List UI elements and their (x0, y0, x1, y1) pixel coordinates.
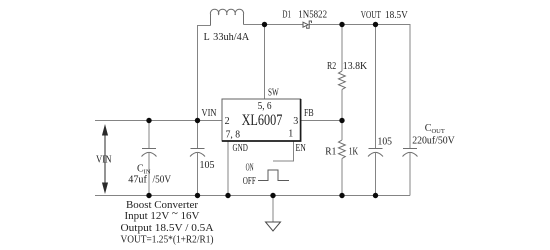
svg-text:1: 1 (288, 129, 293, 140)
svg-text:105: 105 (378, 137, 393, 148)
svg-text:XL6007: XL6007 (242, 112, 283, 129)
svg-text:Output 18.5V / 0.5A: Output 18.5V / 0.5A (121, 223, 215, 234)
svg-text:SW: SW (268, 88, 279, 99)
capacitor C_OUT (403, 149, 418, 157)
capacitor 105 output (368, 149, 383, 157)
resistor R1 (339, 140, 346, 159)
wire FB pin (301, 120, 343, 122)
svg-text:220uf/50V: 220uf/50V (412, 136, 455, 147)
svg-text:L: L (204, 32, 210, 43)
ground (266, 222, 281, 231)
node dots (146, 22, 378, 198)
node VIN junction (195, 118, 200, 123)
svg-text:1N5822: 1N5822 (298, 10, 327, 21)
switch ON/OFF waveform (258, 170, 289, 181)
node SW/L junction (262, 22, 267, 27)
svg-text:/50V: /50V (153, 175, 172, 186)
node GND bottom (225, 193, 230, 198)
resistor R2 (339, 71, 346, 90)
svg-text:EN: EN (296, 143, 306, 154)
svg-text:FB: FB (304, 108, 314, 119)
node 105 in bottom (195, 193, 200, 198)
wire SW pin (264, 25, 266, 100)
svg-text:33uh/4A: 33uh/4A (213, 32, 250, 43)
node FB (339, 118, 344, 123)
svg-text:7, 8: 7, 8 (226, 130, 240, 141)
wire output 105 cap branch (375, 25, 377, 149)
node 105 out bottom (373, 193, 378, 198)
node C_IN bottom (146, 193, 151, 198)
svg-text:VOUT=1.25*(1+R2/R1): VOUT=1.25*(1+R2/R1) (121, 235, 214, 246)
wire GND pin (227, 141, 229, 196)
svg-text:R2: R2 (327, 61, 336, 72)
svg-text:13.8K: 13.8K (343, 61, 368, 72)
wire ground stem (272, 196, 274, 223)
wire FB node to R1 (341, 121, 343, 141)
svg-text:47uf: 47uf (128, 175, 147, 186)
diode D1 (303, 21, 312, 28)
svg-text:VIN: VIN (96, 155, 112, 166)
node 105 out top (373, 22, 378, 27)
node R1 bottom (339, 193, 344, 198)
wire input 105 cap branch (197, 121, 199, 149)
IC U1 XL6007 (222, 99, 301, 141)
svg-text:R1: R1 (325, 147, 336, 158)
svg-text:1K: 1K (349, 147, 359, 158)
capacitor C_IN (142, 149, 157, 157)
wire top rail diode left (244, 24, 303, 26)
svg-text:GND: GND (233, 143, 248, 154)
node C_IN top (146, 118, 151, 123)
svg-text:D1: D1 (282, 10, 291, 21)
node R2 top (339, 22, 344, 27)
svg-text:5, 6: 5, 6 (258, 101, 272, 112)
inductor L (210, 9, 243, 25)
wire C_IN branch (148, 121, 150, 149)
svg-text:Boost Converter: Boost Converter (126, 200, 199, 211)
svg-text:OFF: OFF (243, 176, 256, 187)
wire input top rail (95, 120, 222, 122)
wire C_OUT lower (409, 153, 411, 196)
capacitor 105 input (190, 149, 205, 157)
wire R1 to bottom rail (341, 159, 343, 196)
svg-text:18.5V: 18.5V (385, 10, 409, 21)
svg-text:3: 3 (293, 116, 298, 127)
wire R2 to FB node (341, 90, 343, 121)
wire left vertical to inductor (198, 26, 211, 121)
wire EN pin (273, 141, 294, 161)
svg-text:2: 2 (225, 116, 230, 127)
wire R2 branch upper (341, 25, 343, 72)
svg-text:ON: ON (246, 163, 254, 174)
wire top rail diode right to C_OUT (309, 25, 410, 149)
node ground junction (270, 193, 275, 198)
svg-text:VOUT: VOUT (361, 10, 381, 21)
VIN double arrow (103, 126, 108, 192)
svg-text:Input 12V ~ 16V: Input 12V ~ 16V (125, 209, 201, 223)
wire bottom rail (95, 195, 410, 197)
svg-text:VIN: VIN (202, 108, 217, 119)
svg-text:105: 105 (200, 160, 215, 171)
